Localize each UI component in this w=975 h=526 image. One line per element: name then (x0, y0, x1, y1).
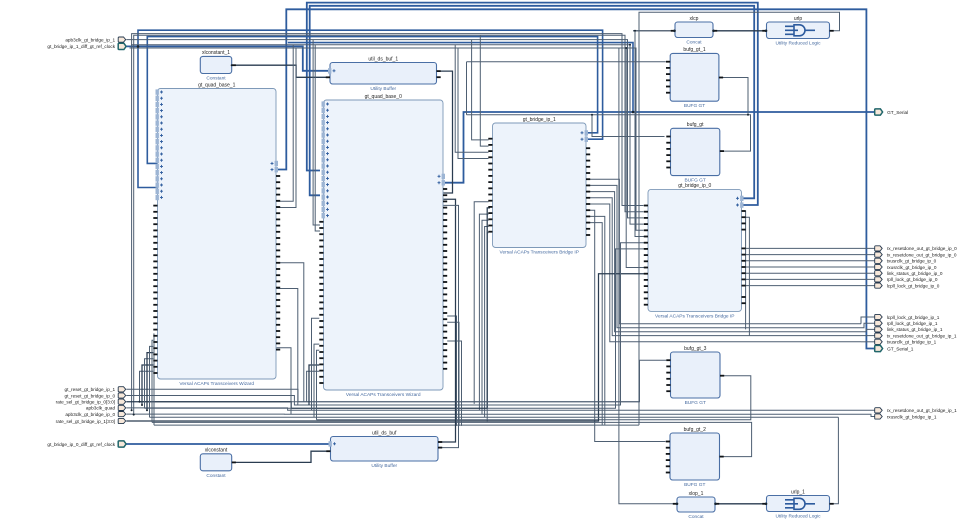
wire GT interface gt_quad_base_0 Quad to gt_bridge_ip_0 (outer blue loop) (307, 3, 758, 205)
port rpll_lock_gt_bridge_ip_0 (875, 277, 938, 282)
pins gt_quad_base_0 right (438, 174, 448, 370)
svg-text:link_status_gt_bridge_ip_0: link_status_gt_bridge_ip_0 (887, 271, 943, 276)
pins bufg_gt (666, 136, 724, 169)
wire xlcp net into gt_bridge_ip_0 pin (635, 31, 644, 237)
wire bufg_gt_2 output (152, 422, 752, 456)
port GT_Serial_1 (875, 345, 914, 351)
svg-text:gt_reset_gt_bridge_ip_0: gt_reset_gt_bridge_ip_0 (65, 393, 116, 398)
svg-text:urlp_1: urlp_1 (791, 489, 805, 495)
block gt_quad_base_1 Versal ACAPs Transceivers Wizard (158, 82, 277, 387)
pins gt_quad_base_1 left interface (156, 89, 164, 200)
svg-text:bufg_gt: bufg_gt (687, 122, 704, 128)
wire quad1 right pin riser 2 (277, 48, 297, 208)
svg-text:Constant: Constant (206, 76, 226, 82)
port apb3clk_quad (86, 405, 126, 410)
port apb3clk_gt_bridge_ip_0 (65, 412, 125, 417)
port rx_resetdone_out_gt_bridge_ip_0 (875, 246, 957, 251)
block urlp_1 Utility Reduced Logic (767, 489, 830, 519)
block xlcp Concat (675, 16, 713, 46)
wire gt_reset_1 row (126, 389, 639, 402)
svg-text:gt_bridge_ip_0_diff_gt_ref_clo: gt_bridge_ip_0_diff_gt_ref_clock (47, 442, 115, 447)
svg-text:bufg_gt_2: bufg_gt_2 (684, 427, 706, 433)
wire gt_bridge_ip_0 extra left pin feed (626, 48, 644, 268)
wire xlop_1 to urlp_1 (715, 503, 767, 505)
port lcpll_lock_gt_bridge_ip_1 (875, 314, 940, 319)
gate icon urlp (785, 25, 815, 36)
wire risers from bundle to gt_quad_base_0 bottom pins (307, 318, 320, 419)
block xlconstant Constant (200, 448, 231, 479)
pins gt_quad_base_0 left single (319, 221, 323, 384)
wire top bundle h4 (131, 45, 644, 224)
pins xlconstant (232, 462, 236, 464)
svg-text:urlp: urlp (794, 16, 803, 22)
port GT_Serial (875, 109, 909, 115)
svg-text:rxusrclk_gt_bridge_ip_0: rxusrclk_gt_bridge_ip_0 (887, 265, 937, 270)
wire rate_sel bus row to gt_bridge_ip_1 (126, 208, 490, 408)
wire GT interface gt_quad_base_0 to gt_bridge_ip_0 (inner blue loop) (310, 6, 755, 199)
wire blue branch y42.6 (288, 43, 633, 112)
port gt_bridge_ip_0_diff_gt_ref_clock (47, 441, 126, 447)
pins util_ds_buf_1 (326, 68, 441, 78)
port txusrclk_gt_bridge_ip_1 (875, 339, 937, 344)
svg-text:xlconstant_1: xlconstant_1 (202, 50, 230, 56)
pins urlp (762, 30, 833, 32)
svg-text:tx_resetdone_out_gt_bridge_ip_: tx_resetdone_out_gt_bridge_ip_0 (887, 252, 957, 257)
svg-text:lcpll_lock_gt_bridge_ip_0: lcpll_lock_gt_bridge_ip_0 (887, 283, 940, 288)
wire util_ds_buf_1 output to gt_quad_base_0 refclk (437, 71, 453, 193)
pins gt_quad_base_0 left interface (322, 101, 330, 218)
wire xlconstant output to util_ds_buf CEB (232, 451, 331, 462)
port rate_sel_gt_bridge_ip_0 (56, 399, 126, 404)
wire blue quad1 refclk to bridge1 (147, 37, 597, 164)
pins gt_bridge_ip_0 left (644, 205, 648, 306)
wire apb3clk bundle top h2 (134, 35, 644, 414)
wire apb3clk bundle top h1 (132, 34, 644, 411)
port tx_resetdone_out_gt_bridge_ip_1 (875, 333, 957, 338)
wire bufg_gt_1 output (719, 78, 748, 115)
svg-text:lcpll_lock_gt_bridge_ip_1: lcpll_lock_gt_bridge_ip_1 (887, 315, 940, 320)
pins bufg_gt_1 (666, 61, 723, 94)
svg-text:BUFG GT: BUFG GT (684, 482, 705, 488)
port rxusrclk_gt_bridge_ip_1 (875, 414, 937, 419)
svg-text:xlconstant: xlconstant (205, 448, 228, 454)
port gt_reset_gt_bridge_ip_0 (65, 393, 126, 398)
svg-text:rxusrclk_gt_bridge_ip_1: rxusrclk_gt_bridge_ip_1 (887, 414, 937, 419)
svg-text:Utility Buffer: Utility Buffer (370, 86, 396, 92)
svg-text:gt_quad_base_0: gt_quad_base_0 (365, 94, 402, 100)
svg-text:txusrclk_gt_bridge_ip_1: txusrclk_gt_bridge_ip_1 (887, 340, 937, 345)
svg-text:bufg_gt_1: bufg_gt_1 (683, 47, 705, 53)
wire GT_Serial net to port GT_Serial (443, 112, 875, 183)
svg-text:Versal ACAPs Transceivers Wiza: Versal ACAPs Transceivers Wizard (346, 392, 421, 398)
block xlop_1 Concat (677, 491, 715, 520)
wire top bundle h5 (130, 48, 644, 230)
svg-text:xlcp: xlcp (690, 16, 699, 22)
svg-text:BUFG GT: BUFG GT (685, 400, 706, 406)
svg-text:rpll_lock_gt_bridge_ip_1: rpll_lock_gt_bridge_ip_1 (887, 321, 938, 326)
block gt_bridge_ip_0 Versal ACAPs Transceivers Bridge IP (648, 183, 742, 319)
wire util_ds_buf outputs rise to gt_quad_base_0 (438, 199, 459, 447)
pins gt_bridge_ip_1 left (488, 138, 492, 233)
block gt_quad_base_0 Versal ACAPs Transceivers Wizard (324, 94, 444, 398)
svg-text:apb3clk_gt_bridge_ip_1: apb3clk_gt_bridge_ip_1 (65, 37, 115, 42)
svg-text:rx_resetdone_out_gt_bridge_ip_: rx_resetdone_out_gt_bridge_ip_0 (887, 246, 957, 251)
pins xlcp (671, 30, 717, 32)
wire _1 row jogs into ports (861, 317, 875, 342)
svg-text:xlop_1: xlop_1 (689, 491, 704, 497)
wire risers from bundle to gt_quad_base_1 bottom pins (140, 334, 155, 425)
port apb3clk_gt_bridge_ip_1 (65, 37, 125, 42)
wire gt_quad_base_0 right pins drop (447, 316, 461, 426)
wire gt_bridge_ip_0_diff_gt_ref_clock to util_ds_buf (126, 443, 330, 445)
svg-text:Utility Reduced Logic: Utility Reduced Logic (775, 41, 821, 47)
block util_ds_buf Utility Buffer (331, 430, 439, 469)
wire gt_reset_0 row (126, 243, 644, 405)
block gt_bridge_ip_1 Versal ACAPs Transceivers Bridge IP (493, 117, 587, 256)
port rate_sel_gt_bridge_ip_1 (56, 418, 126, 423)
svg-text:gt_reset_gt_bridge_ip_1: gt_reset_gt_bridge_ip_1 (65, 387, 116, 392)
wire gt_bridge_ip_0 output wires to right ports (742, 248, 875, 285)
svg-text:rate_sel_gt_bridge_ip_1[3:0]: rate_sel_gt_bridge_ip_1[3:0] (56, 419, 115, 424)
svg-text:Utility Reduced Logic: Utility Reduced Logic (775, 514, 821, 520)
port gt_reset_gt_bridge_ip_1 (65, 387, 126, 392)
svg-text:Constant: Constant (206, 473, 226, 479)
wire row r8 to bufg_gt_2 pin1 (154, 424, 639, 426)
block urlp Utility Reduced Logic (767, 16, 830, 47)
wire quad0 left pin feeds from top (313, 40, 320, 231)
svg-text:apb3clk_gt_bridge_ip_0: apb3clk_gt_bridge_ip_0 (65, 412, 115, 417)
pins xlconstant_1 (232, 64, 236, 66)
wire row r6 to bufg_gt_2 (150, 416, 839, 418)
svg-text:gt_bridge_ip_0: gt_bridge_ip_0 (678, 183, 711, 189)
svg-text:util_ds_buf_1: util_ds_buf_1 (368, 56, 398, 62)
wire gt_quad_base_1 right pins drop (277, 289, 298, 415)
svg-text:BUFG GT: BUFG GT (684, 178, 705, 184)
svg-text:tx_resetdone_out_gt_bridge_ip_: tx_resetdone_out_gt_bridge_ip_1 (887, 333, 957, 338)
wire rate_sel_1 bus row to gt_bridge_ip_0 (126, 274, 644, 421)
wire feeds to gt_bridge_ip_1 left pins (455, 35, 488, 158)
wire urlp_1 output to rxusrclk port (830, 417, 839, 504)
gate icon urlp_1 (785, 498, 815, 509)
wire gt_bridge_ip_1 right pins to output rows (586, 179, 861, 342)
block util_ds_buf_1 Utility Buffer (330, 56, 437, 92)
port lcpll_lock_gt_bridge_ip_0 (875, 283, 940, 288)
wire into xlcp input (633, 30, 675, 32)
svg-text:Versal ACAPs Transceivers Brid: Versal ACAPs Transceivers Bridge IP (655, 313, 734, 319)
svg-text:Concat: Concat (686, 40, 702, 46)
wire urlp output feedback (639, 12, 840, 425)
wire bufg_gt_3 output (317, 376, 751, 420)
port link_status_gt_bridge_ip_1 (875, 327, 943, 332)
svg-text:GT_Serial: GT_Serial (887, 110, 908, 115)
block bufg_gt_2 BUFG GT (670, 427, 720, 488)
svg-text:GT_Serial_1: GT_Serial_1 (887, 346, 914, 351)
pins xlop_1 (673, 503, 719, 505)
svg-text:txusrclk_gt_bridge_ip_0: txusrclk_gt_bridge_ip_0 (887, 259, 937, 264)
svg-text:link_status_gt_bridge_ip_1: link_status_gt_bridge_ip_1 (887, 327, 943, 332)
wire gt_bridge_ip_1 lower left pins to bottom bundle (474, 202, 488, 422)
wire gt_bridge_ip_1_diff_gt_ref_clock to util_ds_buf_1 and branches (126, 30, 602, 187)
wire apb3clk_quad row to port rx_resetdone_1 (126, 408, 875, 410)
wire xlcp to urlp (713, 30, 767, 32)
port txusrclk_gt_bridge_ip_0 (875, 258, 937, 263)
port gt_bridge_ip_1_diff_gt_ref_clock (47, 43, 126, 49)
port link_status_gt_bridge_ip_0 (875, 271, 943, 276)
pins gt_quad_base_1 left single (153, 205, 157, 374)
svg-text:rate_sel_gt_bridge_ip_0[3:0]: rate_sel_gt_bridge_ip_0[3:0] (56, 400, 115, 405)
svg-text:Utility Buffer: Utility Buffer (371, 463, 397, 469)
pins gt_bridge_ip_0 right (736, 196, 746, 304)
wire into xlop_1 input (619, 48, 677, 504)
pins urlp_1 (762, 503, 833, 505)
svg-text:BUFG GT: BUFG GT (684, 103, 705, 109)
svg-text:bufg_gt_3: bufg_gt_3 (684, 346, 706, 352)
wire quad1 right pin to mid column (277, 263, 304, 402)
pins bufg_gt_3 (666, 359, 724, 392)
block bufg_gt_1 BUFG GT (670, 47, 719, 109)
pins gt_quad_base_1 right (271, 161, 281, 351)
block xlconstant_1 Constant (200, 50, 231, 81)
wire apb3clk_gt_bridge_ip_1 net (126, 40, 643, 218)
port rxusrclk_gt_bridge_ip_0 (875, 264, 937, 269)
block bufg_gt BUFG GT (671, 122, 720, 184)
pins gt_bridge_ip_1 right (581, 130, 591, 236)
port rpll_lock_gt_bridge_ip_1 (875, 321, 938, 326)
port tx_resetdone_out_gt_bridge_ip_0 (875, 252, 957, 257)
svg-text:Versal ACAPs Transceivers Wiza: Versal ACAPs Transceivers Wizard (179, 381, 254, 387)
wire row r3b to bufg_gt_2 (145, 249, 645, 408)
svg-text:gt_bridge_ip_1: gt_bridge_ip_1 (523, 117, 556, 123)
port rx_resetdone_out_gt_bridge_ip_1 (875, 408, 957, 413)
wire bufg_gt input feed (592, 115, 665, 137)
svg-text:rpll_lock_gt_bridge_ip_0: rpll_lock_gt_bridge_ip_0 (887, 277, 938, 282)
block bufg_gt_3 BUFG GT (671, 346, 721, 406)
wire xlconstant_1 output to util_ds_buf_1 CEB (232, 65, 330, 77)
svg-text:gt_bridge_ip_1_diff_gt_ref_clo: gt_bridge_ip_1_diff_gt_ref_clock (47, 44, 115, 49)
svg-text:Versal ACAPs Transceivers Brid: Versal ACAPs Transceivers Bridge IP (500, 250, 579, 256)
wire bufg_gt_3 input from bottom bundle (140, 360, 667, 402)
svg-text:util_ds_buf: util_ds_buf (372, 430, 397, 436)
wire gt_bridge_ip_1 right pins down to bottom area (586, 210, 666, 441)
wire quad1 right pin riser (277, 45, 294, 202)
pins util_ds_buf (326, 441, 442, 452)
wire row to urlp_1 riser (126, 414, 875, 416)
svg-text:gt_quad_base_1: gt_quad_base_1 (198, 82, 235, 88)
pins bufg_gt_2 (666, 441, 724, 474)
wire GT_Serial_1 net gt_quad_base_1 to port GT_Serial_1 (blue frame) (277, 9, 875, 348)
svg-text:rx_resetdone_out_gt_bridge_ip_: rx_resetdone_out_gt_bridge_ip_1 (887, 408, 957, 413)
svg-text:apb3clk_quad: apb3clk_quad (86, 406, 116, 411)
svg-text:Concat: Concat (688, 514, 704, 520)
wire gt_bridge_ip_0 upper right pins drop (742, 211, 750, 336)
wire bufg cascade rail (467, 62, 751, 151)
